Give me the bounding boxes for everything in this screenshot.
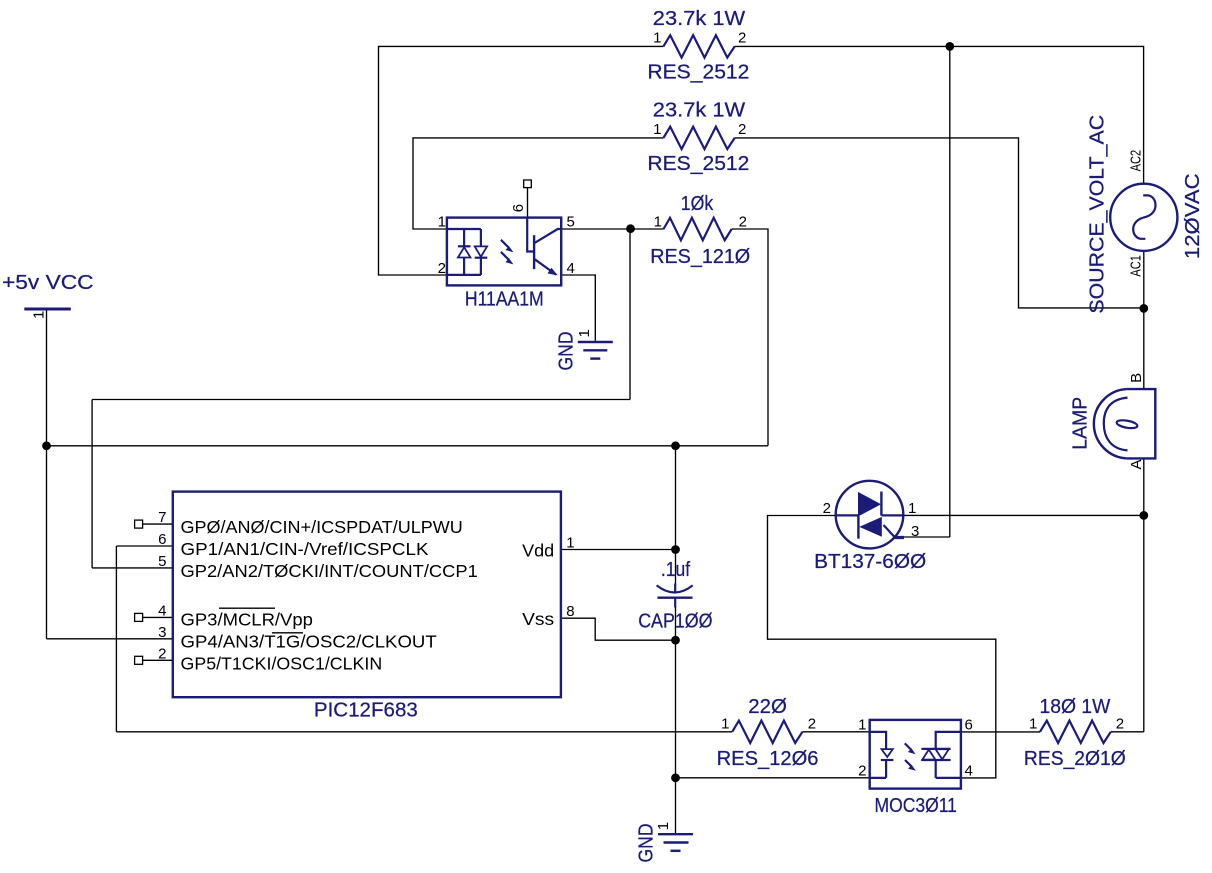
MOC input LED [870,732,894,778]
wire 23.7k R2 pin 2 to AC1 node [735,138,1144,308]
optocoupler U1 H11AA1M body [447,218,561,286]
resistor R2 23.7k RES_2512 second [663,127,734,149]
wire triac pin 1 to lamp A node [903,514,1144,516]
H11 diode D2 right anti-parallel [475,229,488,275]
svg-text:22Ø: 22Ø [748,695,787,718]
triac Q1 internals [836,492,904,539]
wire vertical down to GP2 row [91,400,93,568]
svg-text:Vdd: Vdd [522,541,554,561]
svg-text:2: 2 [823,500,831,517]
svg-text:A: A [1128,459,1145,469]
svg-text:18Ø 1W: 18Ø 1W [1040,695,1111,718]
wire Vss pin 8 jog to capacitor bottom [561,618,676,640]
svg-text:3: 3 [911,523,919,540]
svg-text:GP2/AN2/TØCKI/INT/COUNT/CCP1: GP2/AN2/TØCKI/INT/COUNT/CCP1 [181,561,478,581]
svg-text:AC1: AC1 [1127,255,1144,277]
svg-text:+5v VCC: +5v VCC [2,271,94,294]
unconnected pin square H11 pin 6 [524,180,532,188]
svg-text:6: 6 [510,204,527,212]
H11 phototransistor [527,218,561,276]
svg-text:5: 5 [567,213,575,230]
capacitor C1 CAP100 [657,584,693,608]
svg-text:1: 1 [721,716,729,733]
svg-text:GPØ/ANØ/CIN+/ICSPDAT/ULPWU: GPØ/ANØ/CIN+/ICSPDAT/ULPWU [181,517,463,537]
svg-text:1: 1 [653,121,661,138]
svg-text:7: 7 [158,509,166,526]
junction AC1 lamp node [1139,304,1148,313]
svg-text:GP1/AN1/CIN-/Vref/ICSPCLK: GP1/AN1/CIN-/Vref/ICSPCLK [181,539,429,559]
svg-text:H11AA1M: H11AA1M [465,287,544,310]
H11 internal input rails [447,229,481,275]
svg-text:4: 4 [158,602,166,619]
svg-text:B: B [1128,373,1145,383]
wire riser 10k pin 2 down to +5V rail [732,229,768,446]
svg-text:23.7k 1W: 23.7k 1W [653,7,746,30]
svg-text:LAMP: LAMP [1069,397,1092,450]
junction ground MOC pin 2 node [671,773,680,782]
junction Vss capacitor bottom [671,636,680,645]
wire MOC3011 pin 4 loop to triac pin 2 [768,516,996,778]
triac Q1 BT137-600 body circle [836,481,904,549]
svg-text:RES_121Ø: RES_121Ø [650,245,750,268]
junction lamp A triac pin 1 node [1139,511,1148,520]
wire H11 pin 5 to 10k pin 1 [561,228,663,230]
svg-text:8: 8 [566,603,574,620]
unconnected pin square PIC pin 7 [135,520,143,528]
svg-text:6: 6 [965,717,973,734]
wire horizontal at y=399.5 to left [92,399,630,401]
svg-text:4: 4 [567,260,575,277]
AC source sine wave [1133,195,1155,238]
wire from R1/AC2 node down to triac gate [949,46,951,537]
wire H11 pin 6 to unconnected square [527,188,529,219]
svg-text:PIC12F683: PIC12F683 [314,699,418,722]
svg-text:1: 1 [566,535,574,552]
svg-text:2: 2 [858,762,866,779]
svg-text:4: 4 [965,762,973,779]
junction R1 to AC2 and gate riser [945,42,954,51]
wire +5V to PIC pin 3 GP4 [47,638,173,640]
wire PIC pin 4 stub [143,616,173,618]
ground GND2 symbol at bottom [658,834,693,851]
svg-text:RES_12Ø6: RES_12Ø6 [717,747,819,770]
MOC light arrows [905,743,916,770]
wire PIC pin 6 GP1 to left riser [116,545,172,547]
wire lamp pin A down to 180 ohm pin 2 [1143,459,1145,732]
svg-text:GP4/AN3/T1G/OSC2/CLKOUT: GP4/AN3/T1G/OSC2/CLKOUT [181,632,438,652]
svg-text:CAP1ØØ: CAP1ØØ [638,610,712,633]
power +5v VCC bar [2,271,94,309]
svg-text:GP5/T1CKI/OSC1/CLKIN: GP5/T1CKI/OSC1/CLKIN [181,653,383,673]
wire node B down from H11 pin5 junction [629,229,631,400]
svg-text:MOC3Ø11: MOC3Ø11 [875,794,957,817]
wire Vdd pin 1 to capacitor junction [561,549,676,551]
unconnected pin square PIC pin 2 [135,656,143,664]
resistor R1 23.7k RES_2512 top [663,35,734,57]
wire Vdd rail down to capacitor [675,446,677,585]
junction +5V rail left [42,441,51,450]
wire 23.7k R1 pin 2 to AC2 [735,46,1144,183]
svg-text:2: 2 [738,121,746,138]
svg-text:SOURCE_VOLT_AC: SOURCE_VOLT_AC [1086,115,1109,314]
junction H11 pin 5 node [626,224,635,233]
svg-text:.1uf: .1uf [661,558,690,581]
svg-text:RES_2512: RES_2512 [647,152,749,175]
svg-text:2: 2 [808,716,816,733]
wire +5V horizontal rail to 10k pin 2 riser [47,445,769,447]
svg-text:1: 1 [1029,716,1037,733]
wire H11 pin 2 left riser to 23.7k R1 [379,46,664,275]
resistor R5 180 RES_2010 [1040,721,1111,743]
wire capacitor bottom down to ground [675,607,677,834]
svg-text:2: 2 [1116,716,1124,733]
svg-text:1: 1 [908,500,916,517]
wire 220 ohm pin 2 to MOC3011 pin 1 [802,731,869,733]
wire GP1 run to 220 ohm pin 1 [116,731,732,733]
svg-text:GND: GND [555,332,578,371]
svg-text:6: 6 [158,531,166,548]
H11 light arrows [501,240,514,265]
svg-text:1: 1 [438,213,446,230]
AC source V1 circle [1110,184,1177,251]
svg-text:2: 2 [739,214,747,231]
svg-text:1: 1 [654,214,662,231]
svg-text:3: 3 [158,624,166,641]
wire PIC pin 7 stub [143,523,173,525]
svg-text:GP3/MCLR/Vpp: GP3/MCLR/Vpp [181,610,313,630]
svg-text:2: 2 [438,260,446,277]
wire AC1 down to lamp pin B [1143,251,1145,389]
MOC output photo-triac [921,732,961,778]
wire H11 pin 1 left riser to 23.7k R2 [413,138,663,229]
svg-text:1Øk: 1Øk [681,192,714,215]
svg-text:12ØVAC: 12ØVAC [1181,173,1204,259]
wire 180 ohm pin 2 [1111,731,1144,733]
unconnected pin square PIC pin 4 [135,613,143,621]
svg-text:RES_2Ø1Ø: RES_2Ø1Ø [1024,747,1126,770]
svg-text:1: 1 [576,329,593,337]
resistor R4 220 RES_1206 [732,721,802,743]
optocoupler U3 MOC3011 body [870,720,961,789]
wire H11 pin 4 to ground 1 [561,275,595,341]
microcontroller U2 PIC12F683 body [173,492,561,698]
svg-text:2: 2 [738,30,746,47]
resistor R3 10k RES_1210 [664,218,732,240]
svg-text:RES_2512: RES_2512 [647,60,749,83]
wire triac pin 3 gate stub [904,536,950,538]
wire into PIC pin 5 GP2 [92,567,173,569]
svg-text:5: 5 [158,553,166,570]
wire GP1 riser down [115,546,117,732]
svg-text:1: 1 [653,30,661,47]
svg-text:BT137-6ØØ: BT137-6ØØ [814,550,926,573]
H11 diode D1 left anti-parallel [458,229,471,275]
svg-text:AC2: AC2 [1127,150,1144,172]
svg-text:23.7k 1W: 23.7k 1W [653,98,746,121]
lamp X1 body [1094,389,1155,458]
wire MOC3011 pin 6 to 180 ohm pin 1 [961,731,1040,733]
wire +5V vertical from VCC bar down to GP4 row [46,310,48,639]
svg-text:Vss: Vss [522,609,554,629]
wire ground net to MOC3011 pin 2 [676,777,870,779]
junction +5V rail at Vdd riser [671,441,680,450]
junction Vdd capacitor top [671,545,680,554]
wire PIC pin 2 stub [143,659,173,661]
svg-text:1: 1 [858,717,866,734]
svg-text:1: 1 [655,822,672,830]
svg-text:1: 1 [31,311,48,319]
ground GND1 symbol near H11 [578,342,613,359]
svg-text:2: 2 [158,645,166,662]
